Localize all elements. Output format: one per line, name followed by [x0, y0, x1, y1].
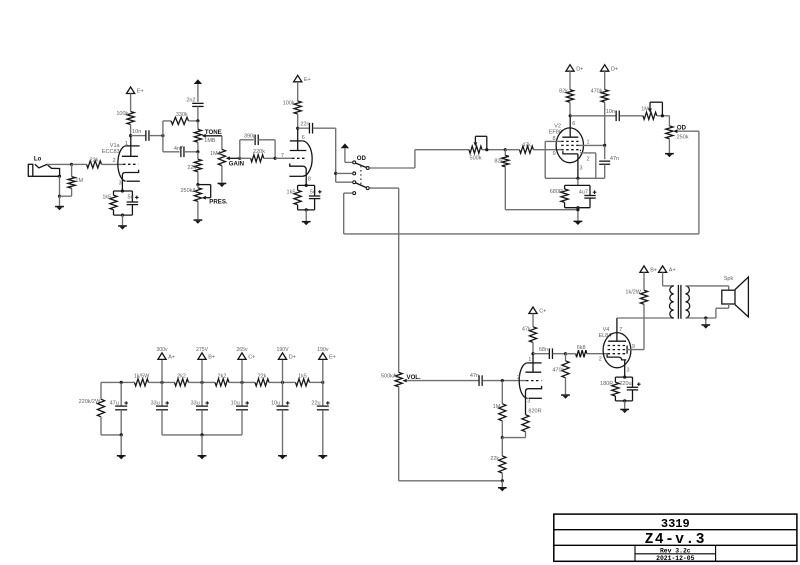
- svg-text:E+: E+: [304, 77, 311, 83]
- resistor 22k (V3 bias): [501, 438, 503, 456]
- svg-text:33u: 33u: [191, 400, 200, 406]
- wire 82k to cathode ground bus: [505, 209, 578, 211]
- svg-text:47k: 47k: [522, 327, 531, 333]
- svg-text:Z4-v.3: Z4-v.3: [645, 532, 706, 548]
- svg-text:3: 3: [627, 368, 630, 374]
- svg-text:Rev 3.2c: Rev 3.2c: [660, 547, 691, 554]
- ground (470k): [561, 394, 570, 396]
- wire screen resistor to pin 9: [643, 304, 645, 349]
- node V1b plate: [296, 127, 299, 130]
- svg-text:2k2: 2k2: [218, 374, 227, 380]
- node GAIN wiper / 390p: [238, 157, 241, 160]
- capacitor 47n (V3 input): [478, 375, 480, 386]
- svg-text:2021-12-05: 2021-12-05: [656, 555, 695, 562]
- node V4 cathode: [623, 376, 626, 379]
- wire to 4n7 branch: [162, 136, 164, 152]
- wire VOL bottom to ground bus: [398, 387, 400, 481]
- svg-text:22k: 22k: [490, 456, 499, 462]
- svg-text:OD: OD: [357, 155, 367, 162]
- cathode network V4: resistor 180R parallel capacitor 220u: [615, 376, 632, 378]
- capacitor 10n (EF86 coupling): [615, 111, 617, 122]
- wire plate resistor to plate node: [130, 125, 132, 136]
- svg-text:250kA: 250kA: [180, 188, 196, 194]
- node 1M / 220k / 820R: [501, 436, 504, 439]
- svg-text:1k/2W: 1k/2W: [625, 290, 641, 296]
- node 22k / PRES pot: [196, 183, 199, 186]
- resistor 6k8 (grid stopper): [576, 350, 587, 357]
- svg-text:10u: 10u: [271, 400, 280, 406]
- svg-text:10u: 10u: [231, 400, 240, 406]
- svg-text:265v: 265v: [236, 347, 248, 353]
- svg-text:8: 8: [308, 177, 311, 183]
- ground (PRES pot): [197, 201, 199, 219]
- svg-text:47k: 47k: [522, 143, 531, 149]
- resistor 1k/5W: [135, 379, 149, 386]
- resistor 1M (grid leak): [68, 177, 75, 189]
- resistor 22k (grid stopper): [87, 161, 102, 168]
- svg-text:1MB: 1MB: [204, 138, 216, 144]
- svg-text:47u: 47u: [110, 400, 119, 406]
- svg-text:6k8: 6k8: [577, 345, 586, 351]
- svg-text:3319: 3319: [661, 517, 690, 531]
- svg-text:D+: D+: [289, 355, 296, 361]
- capacitor 47n (screen bypass): [604, 145, 606, 159]
- wire cathode bus: [545, 177, 605, 179]
- cathode network V1a: resistor 1k5 parallel capacitor 5u: [114, 190, 133, 192]
- svg-text:22k: 22k: [90, 157, 99, 163]
- supply E+ (V1b): [294, 75, 302, 82]
- resistor 1k5 (D+ to E+): [296, 379, 310, 386]
- svg-text:68n: 68n: [539, 347, 548, 353]
- svg-text:2: 2: [517, 375, 520, 381]
- resistor 22k (C+ to D+): [255, 379, 269, 386]
- switch OD (DPDT) section 1: [353, 161, 356, 164]
- svg-text:3: 3: [580, 166, 583, 172]
- potentiometer 1M (OD level, rheostat): [643, 112, 657, 119]
- resistor 22k (tone slope): [197, 152, 199, 160]
- capacitor 22n (V1b coupling): [298, 127, 310, 129]
- svg-text:390p: 390p: [244, 133, 256, 139]
- svg-text:100k: 100k: [283, 101, 295, 107]
- svg-text:2n2: 2n2: [186, 98, 195, 104]
- output transformer core: [677, 285, 679, 319]
- svg-text:820R: 820R: [528, 409, 541, 415]
- capacitor 390p (parallel loop): [239, 140, 241, 159]
- svg-text:7: 7: [281, 153, 284, 159]
- node 330k / 2n2: [196, 119, 199, 122]
- ground (V3 divider): [501, 479, 504, 482]
- node V3 plate: [531, 352, 534, 355]
- potentiometer TONE 1MB: [197, 121, 199, 129]
- supply E+ (V1a): [127, 87, 135, 94]
- node V1a plate: [129, 134, 132, 137]
- capacitor 2n2: [192, 102, 203, 104]
- ground (V1a cathode): [121, 214, 124, 217]
- wire plate to 10n: [570, 115, 616, 117]
- wire speaker return: [728, 304, 730, 308]
- capacitor 33u (A+): [161, 382, 163, 405]
- capacitor 10n (V1a coupling): [131, 135, 146, 137]
- svg-text:1: 1: [125, 141, 128, 147]
- wire secondary top to speaker: [686, 285, 729, 287]
- svg-text:190V: 190V: [276, 347, 289, 353]
- node V1a cathode: [121, 189, 124, 192]
- svg-text:22k: 22k: [187, 165, 196, 171]
- svg-text:1M: 1M: [641, 107, 649, 113]
- svg-text:33u: 33u: [151, 400, 160, 406]
- net arrow (from tone stack): [341, 143, 349, 148]
- capacitor 22u (E+): [322, 382, 324, 405]
- resistor 100k (V1b plate): [294, 101, 301, 114]
- svg-text:ECC83: ECC83: [102, 149, 120, 155]
- title block frame: [554, 514, 797, 561]
- node screen / 470k / 47n: [603, 144, 606, 147]
- svg-text:250k: 250k: [677, 135, 689, 141]
- wire VOL wiper to 47n: [407, 380, 479, 382]
- svg-text:2: 2: [587, 156, 590, 162]
- svg-text:V2: V2: [554, 124, 561, 130]
- svg-text:2: 2: [113, 158, 116, 164]
- svg-text:47n: 47n: [610, 156, 619, 162]
- node 500k / 82k: [485, 148, 488, 151]
- potentiometer 500k (trimmer, rheostat): [469, 146, 482, 153]
- supply D+ (EF86 plate): [566, 65, 574, 72]
- wire 22n to switch throws: [335, 128, 337, 182]
- output transformer secondary: [686, 286, 690, 318]
- svg-text:220k/2W: 220k/2W: [79, 399, 102, 405]
- ground (V1b cathode): [305, 208, 308, 211]
- potentiometer 250k OD: [668, 116, 670, 126]
- svg-text:Spk: Spk: [724, 276, 734, 282]
- resistor 82k (EF86 plate): [566, 90, 573, 103]
- wire TONE wiper to GAIN pot: [221, 136, 223, 150]
- svg-text:Lo: Lo: [34, 155, 42, 162]
- node 1M / 250k: [661, 114, 664, 117]
- supply B+ (EL84 screen): [640, 266, 648, 273]
- svg-text:680R: 680R: [550, 189, 563, 195]
- suppressor pin2 link: [579, 150, 581, 153]
- cathode network V2: resistor 680R parallel capacitor 4u7: [565, 184, 590, 186]
- resistor 47k (V3 plate): [529, 327, 536, 343]
- ground (V2 cathode): [576, 206, 579, 209]
- wire screen pin1 to 470k node: [579, 144, 605, 146]
- wire EL84 plate to OT primary: [617, 317, 674, 319]
- supply C+ (V3): [529, 307, 537, 314]
- svg-text:C+: C+: [539, 309, 546, 315]
- resistor 470k (EF86 screen): [601, 90, 608, 103]
- svg-text:B+: B+: [208, 355, 215, 361]
- ground (47u): [120, 433, 123, 436]
- resistor 47k (EF86 grid): [519, 146, 533, 153]
- svg-text:GAIN: GAIN: [229, 160, 244, 167]
- svg-text:OD: OD: [677, 125, 687, 132]
- svg-text:470k: 470k: [552, 367, 564, 373]
- capacitor 10u (D+): [282, 382, 284, 405]
- node 68n / 470k: [564, 352, 567, 355]
- svg-text:100k: 100k: [116, 111, 128, 117]
- resistor 82k (feedback): [504, 150, 506, 156]
- svg-text:A+: A+: [669, 268, 676, 274]
- resistor 330k: [171, 117, 189, 124]
- supply D+ (EF86 screen): [601, 65, 609, 72]
- supply tap A+ 300v: [160, 381, 163, 384]
- net arrow (to OD switch): [194, 79, 202, 84]
- supply A+ (output transformer): [659, 266, 667, 273]
- ground (GAIN pot): [221, 166, 223, 183]
- svg-text:1MA: 1MA: [210, 151, 222, 157]
- capacitor 10u (C+): [241, 382, 243, 405]
- wire to 330k branch: [162, 121, 164, 136]
- svg-text:275V: 275V: [196, 347, 209, 353]
- svg-text:1: 1: [528, 357, 531, 363]
- potentiometer PRES 250kA (rheostat): [194, 188, 201, 202]
- svg-text:500k: 500k: [470, 155, 482, 161]
- resistor 820R (V3 cathode): [522, 415, 529, 432]
- svg-text:B+: B+: [650, 268, 657, 274]
- svg-text:E+: E+: [137, 89, 144, 95]
- svg-text:10n: 10n: [132, 129, 141, 135]
- capacitor 33u (B+): [201, 382, 203, 405]
- svg-text:82k: 82k: [559, 88, 568, 94]
- wire jack sleeve to ground: [58, 175, 61, 178]
- svg-text:5u: 5u: [127, 195, 133, 201]
- node 4n7 / tone pot: [196, 150, 199, 153]
- supply tap E+ 190v: [321, 381, 324, 384]
- resistor 1k/2W (screen): [640, 290, 647, 304]
- svg-text:E+: E+: [329, 355, 336, 361]
- triode V1b ECC83: [290, 140, 302, 142]
- wire PSU rail: [101, 381, 135, 383]
- svg-text:180R: 180R: [600, 381, 613, 387]
- svg-text:1k/5W: 1k/5W: [134, 374, 150, 380]
- potentiometer GAIN 1MA: [218, 149, 225, 165]
- capacitor 68n (coupling): [533, 353, 549, 355]
- supply tap B+ 275V: [200, 381, 203, 384]
- svg-text:V1a: V1a: [110, 143, 121, 149]
- svg-text:22n: 22n: [300, 122, 309, 128]
- svg-text:D+: D+: [611, 66, 618, 72]
- resistor 220k/2W (bleeder): [100, 382, 102, 399]
- svg-text:82k: 82k: [494, 158, 503, 164]
- ground (V4 cathode): [623, 399, 626, 402]
- svg-text:3: 3: [119, 181, 122, 187]
- svg-text:300v: 300v: [156, 347, 168, 353]
- output transformer primary: [669, 286, 673, 318]
- resistor 100k (V1a plate): [127, 112, 134, 125]
- resistor 2k2 (B+ to C+): [215, 379, 229, 386]
- V2 cathode lead: [577, 154, 579, 178]
- svg-text:2k2: 2k2: [177, 374, 186, 380]
- svg-text:1M: 1M: [75, 178, 83, 184]
- svg-text:2: 2: [599, 356, 602, 362]
- svg-text:1k5: 1k5: [102, 195, 111, 201]
- ground (input jack): [59, 196, 61, 206]
- input jack Lo: [28, 164, 33, 176]
- svg-text:220u: 220u: [619, 381, 631, 387]
- ground (speaker/secondary): [704, 316, 707, 319]
- wire switch common1 to 500k pot: [369, 167, 415, 169]
- node V2 plate: [569, 114, 572, 117]
- wire pin8 stub to bus: [545, 140, 561, 142]
- switch OD section 2: [353, 181, 356, 184]
- resistor 2k2 (A+ to B+): [175, 379, 189, 386]
- svg-text:47n: 47n: [470, 373, 479, 379]
- resistor 1M (V3 grid leak): [501, 381, 503, 404]
- svg-text:7: 7: [619, 327, 622, 333]
- svg-text:C+: C+: [248, 355, 255, 361]
- svg-text:4n7: 4n7: [174, 146, 183, 152]
- wire switch common2 to VOL pot: [369, 187, 398, 189]
- supply tap D+ 190V: [281, 381, 284, 384]
- wire to V1b grid: [275, 157, 292, 159]
- capacitor 47u: [120, 381, 123, 384]
- svg-text:3: 3: [527, 398, 530, 404]
- svg-text:9: 9: [553, 151, 556, 157]
- node V1b cathode: [305, 184, 308, 187]
- svg-text:22u: 22u: [311, 400, 320, 406]
- svg-text:1M: 1M: [493, 404, 501, 410]
- svg-text:22k: 22k: [258, 374, 267, 380]
- wire PSU ground bus: [162, 434, 242, 436]
- node 220k / 390p: [274, 157, 277, 160]
- svg-text:PRES.: PRES.: [209, 198, 228, 205]
- svg-text:1k5: 1k5: [298, 374, 307, 380]
- resistor 220k (series grid): [251, 155, 264, 162]
- svg-text:10n: 10n: [606, 109, 615, 115]
- wire switch sec2 lower throw to feedback bus: [344, 192, 353, 194]
- ground (250k): [668, 139, 670, 153]
- ground (D+ cap): [278, 455, 287, 457]
- svg-text:1k5: 1k5: [287, 190, 296, 196]
- triode V3: [528, 362, 542, 364]
- ground (PSU bus): [201, 435, 203, 455]
- svg-text:5u: 5u: [310, 190, 316, 196]
- svg-text:4u7: 4u7: [579, 189, 588, 195]
- svg-text:500kA: 500kA: [381, 373, 397, 379]
- wire feedback bus (bottom): [344, 233, 699, 235]
- svg-text:190v: 190v: [317, 347, 329, 353]
- svg-text:330k: 330k: [176, 112, 188, 118]
- svg-text:6: 6: [572, 121, 575, 127]
- cathode network V1b: resistor 1k5 parallel capacitor 5u: [298, 184, 315, 186]
- resistor 470k (EL84 grid leak): [565, 354, 567, 361]
- svg-text:TONE: TONE: [205, 129, 222, 136]
- node input (tip): [70, 163, 73, 166]
- svg-text:VOL.: VOL.: [407, 374, 422, 381]
- ground (E+ cap): [318, 455, 327, 457]
- svg-text:220k: 220k: [253, 149, 265, 155]
- svg-text:470k: 470k: [591, 88, 603, 94]
- wire 22k to V1a grid: [102, 163, 124, 165]
- switch gang dotted link: [360, 166, 362, 186]
- supply tap C+ 265v: [240, 381, 243, 384]
- potentiometer VOL 500kA: [395, 372, 402, 386]
- node tone stack input: [161, 134, 164, 137]
- node V3 grid / 1M: [501, 379, 504, 382]
- svg-text:A+: A+: [168, 355, 175, 361]
- capacitor 4n7: [180, 147, 182, 158]
- svg-text:6: 6: [302, 135, 305, 141]
- svg-text:D+: D+: [576, 66, 583, 72]
